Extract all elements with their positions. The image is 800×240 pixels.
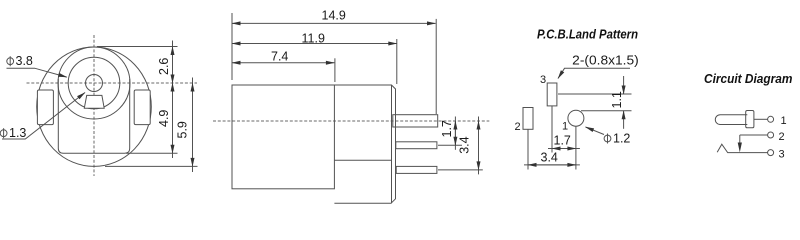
svg-text:3.4: 3.4 — [541, 151, 558, 165]
svg-text:3.4: 3.4 — [458, 136, 472, 153]
svg-text:1: 1 — [781, 115, 787, 127]
svg-text:4.9: 4.9 — [157, 110, 171, 127]
svg-text:5.9: 5.9 — [176, 121, 190, 138]
svg-text:3: 3 — [540, 74, 546, 86]
svg-text:Circuit Diagram: Circuit Diagram — [704, 71, 793, 86]
svg-text:1.7: 1.7 — [440, 120, 454, 137]
svg-text:2: 2 — [515, 121, 521, 133]
svg-text:3: 3 — [779, 149, 785, 161]
svg-text:14.9: 14.9 — [322, 9, 346, 23]
svg-text:1.3: 1.3 — [9, 126, 26, 140]
svg-text:2.6: 2.6 — [157, 58, 171, 75]
svg-text:1: 1 — [562, 121, 568, 133]
svg-text:3.8: 3.8 — [16, 54, 33, 68]
svg-text:2: 2 — [779, 131, 785, 143]
svg-text:1.2: 1.2 — [613, 132, 630, 146]
svg-text:1.7: 1.7 — [554, 134, 571, 148]
svg-text:11.9: 11.9 — [302, 32, 325, 46]
svg-text:2-(0.8x1.5): 2-(0.8x1.5) — [572, 54, 639, 68]
svg-text:P.C.B.Land Pattern: P.C.B.Land Pattern — [537, 27, 638, 42]
svg-text:1.1: 1.1 — [610, 91, 624, 108]
svg-text:7.4: 7.4 — [271, 50, 288, 64]
